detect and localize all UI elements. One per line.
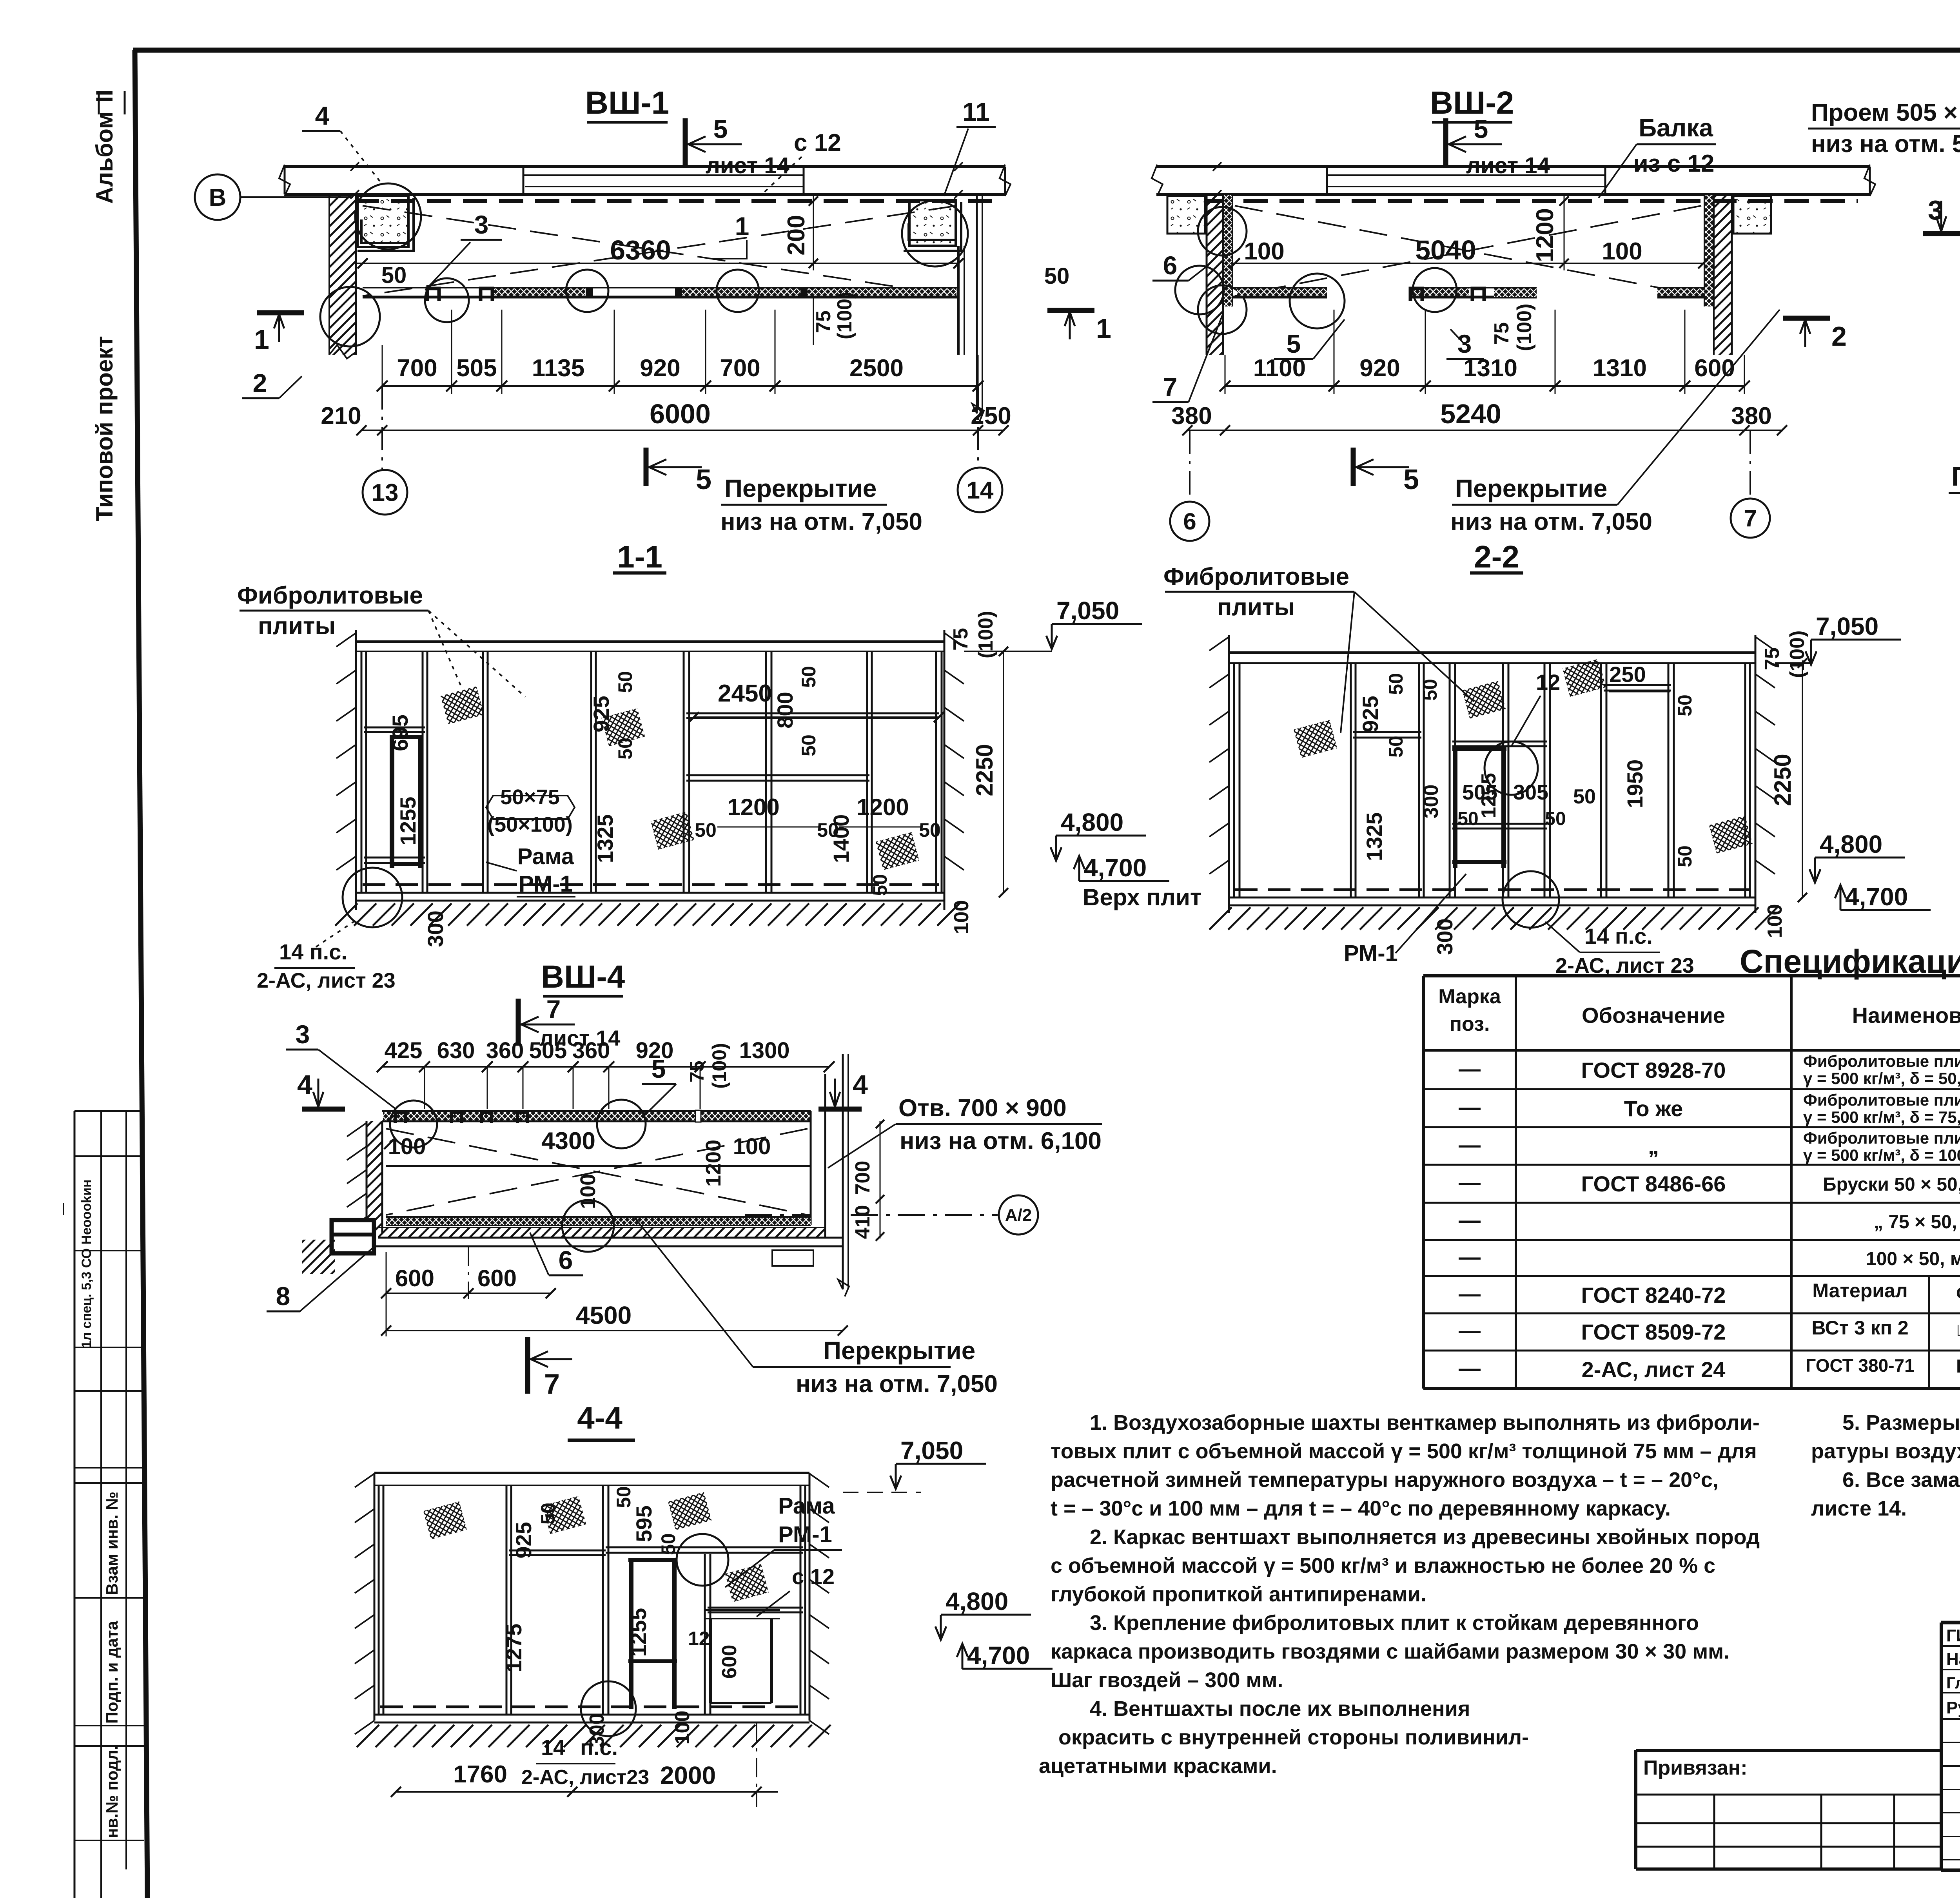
svg-text:1255: 1255	[1477, 773, 1500, 818]
2-2 dim 75 100 top right	[1761, 631, 1809, 678]
svg-text:13: 13	[372, 479, 399, 506]
svg-text:5: 5	[713, 114, 728, 143]
svg-text:360: 360	[486, 1038, 524, 1063]
svg-text:4,800: 4,800	[946, 1587, 1008, 1615]
svg-text:(100): (100)	[1786, 631, 1809, 678]
svg-text:50×75: 50×75	[500, 785, 560, 809]
4-4 bottom dims 1760 2000	[391, 1722, 778, 1807]
VSh-1 pos label 4	[302, 101, 382, 184]
svg-text:50: 50	[1674, 845, 1696, 867]
VSh-1 ceiling slab band	[279, 162, 1011, 199]
svg-text:ГОСТ 8509-72: ГОСТ 8509-72	[1581, 1320, 1726, 1344]
VSh-3 cut mark 3 left	[1923, 195, 1960, 234]
VSh-2 dimension row A	[1225, 310, 1744, 394]
VSh-2 pos labels 6 and 7	[1152, 251, 1207, 281]
svg-text:505: 505	[529, 1038, 567, 1063]
svg-text:7: 7	[544, 1369, 560, 1400]
svg-text:низ на отм. 5,100: низ на отм. 5,100	[1811, 131, 1960, 158]
VSh-4 top dim row	[377, 1038, 835, 1109]
svg-text:1: 1	[254, 324, 269, 355]
4-4 node circles	[581, 1681, 636, 1736]
svg-text:Отв. 700 × 900: Отв. 700 × 900	[898, 1095, 1067, 1122]
svg-text:50: 50	[798, 734, 820, 756]
svg-text:300: 300	[1420, 785, 1443, 819]
svg-text:Фибролитовые: Фибролитовые	[1163, 563, 1349, 590]
svg-text:Спецификация: Спецификация	[1740, 943, 1960, 980]
VSh-2 concrete block outside right	[1733, 196, 1771, 234]
svg-text:Проем 505 × 1255 (h),: Проем 505 × 1255 (h),	[1811, 99, 1960, 126]
svg-text:50: 50	[657, 1533, 679, 1555]
svg-text:ратуры воздуха t = – 40°: ратуры воздуха t = – 40°с.	[1811, 1440, 1960, 1463]
2-2 bottom chords	[1229, 890, 1755, 905]
2-2 studs	[1234, 663, 1750, 897]
svg-text:6. Все замаркированные уз: 6. Все замаркированные узлы на схемах ра…	[1842, 1468, 1960, 1492]
svg-text:200: 200	[783, 215, 810, 255]
VSh-4 dim row 600 600	[381, 1246, 556, 1299]
VSh-4 pos label 8	[267, 1248, 372, 1311]
svg-text:Типовой проект: Типовой проект	[91, 336, 118, 521]
svg-text:низ на отм. 6,100: низ на отм. 6,100	[900, 1128, 1102, 1155]
VSh-1 inner face line	[356, 263, 958, 264]
svg-text:В: В	[209, 184, 227, 211]
svg-text:Рама: Рама	[778, 1493, 835, 1519]
svg-text:250: 250	[1609, 662, 1646, 687]
VSh-4 bottom bands	[372, 1217, 843, 1246]
svg-text:ГОСТ 380-71: ГОСТ 380-71	[1806, 1355, 1914, 1376]
VSh-2 axis 7	[1731, 430, 1770, 538]
svg-text:300: 300	[1432, 918, 1457, 955]
svg-text:γ = 500 кг/м³, δ = 50,: γ = 500 кг/м³, δ = 50, м²	[1803, 1069, 1960, 1088]
svg-text:14: 14	[541, 1735, 565, 1760]
privyazan block	[1636, 1750, 1941, 1869]
section 1-1 title	[613, 539, 666, 574]
svg-text:Проем 1700 × 2620 (h),: Проем 1700 × 2620 (h),	[1951, 461, 1960, 491]
1-1 studs	[361, 651, 942, 893]
svg-text:ГОСТ 8928-70: ГОСТ 8928-70	[1581, 1058, 1726, 1082]
1-1 door frame RM-1	[390, 735, 423, 868]
2-2 top chord	[1229, 653, 1755, 663]
svg-text:γ = 500 кг/м³, δ = 75,: γ = 500 кг/м³, δ = 75, м²	[1803, 1108, 1960, 1126]
VSh-2 ceiling slab band	[1152, 162, 1875, 199]
VSh-4 section flag 7 bottom	[528, 1337, 572, 1400]
svg-text:ВШ-4: ВШ-4	[541, 959, 625, 995]
1-1 ground hatch	[335, 903, 358, 926]
VSh-1 section flag 5 top	[685, 114, 789, 178]
svg-text:окрасить с внутренней ст: окрасить с внутренней стороны поливинил-	[1058, 1726, 1529, 1749]
svg-text:товых плит с объемной: товых плит с объемной массой γ = 500 кг/…	[1051, 1440, 1757, 1463]
svg-text:425: 425	[385, 1038, 423, 1063]
svg-text:А/2: А/2	[1005, 1206, 1032, 1225]
svg-text:Марка: Марка	[1438, 985, 1501, 1008]
svg-text:630: 630	[437, 1038, 475, 1063]
spec table headers	[1438, 985, 1960, 1046]
VSh-4 node circle bottom	[562, 1200, 614, 1252]
notes column 2	[1811, 1411, 1960, 1520]
4-4 ground hatch	[357, 1725, 379, 1747]
VSh-4 vertical dims right 700 410	[851, 1120, 884, 1241]
2-2 right wall line	[1755, 635, 1775, 913]
VSh-2 dim 1200 vertical	[1532, 196, 1569, 270]
VSh-1 axis 13	[363, 386, 407, 515]
svg-text:2: 2	[253, 368, 267, 397]
svg-text:Взам инв. №: Взам инв. №	[103, 1492, 121, 1595]
svg-text:1. Воздухозаборные шахты: 1. Воздухозаборные шахты венткамер выпол…	[1090, 1411, 1760, 1434]
svg-text:14 п.с.: 14 п.с.	[279, 939, 347, 964]
svg-text:7,050: 7,050	[1056, 596, 1119, 625]
svg-text:50: 50	[1674, 694, 1696, 716]
4-4 small window detail	[705, 1610, 780, 1703]
VSh-2 left wall hatched	[1207, 195, 1232, 355]
svg-text:50: 50	[1457, 809, 1478, 829]
svg-text:1135: 1135	[532, 355, 585, 382]
title block signature table	[1941, 1610, 1960, 1870]
svg-text:50: 50	[381, 263, 407, 288]
1-1 dim texts lower	[396, 794, 941, 896]
svg-text:—: —	[1459, 1056, 1481, 1081]
VSh-4 pos label 5	[642, 1054, 676, 1117]
svg-text:1200: 1200	[857, 794, 909, 820]
svg-text:11: 11	[962, 97, 990, 126]
margin text Tipovoy proekt	[91, 336, 118, 521]
svg-text:7,050: 7,050	[1816, 612, 1878, 640]
svg-text:100: 100	[950, 900, 973, 934]
VSh-2 node circles	[1290, 274, 1345, 328]
svg-text:2500: 2500	[849, 355, 904, 382]
VSh-2 inner face line	[1232, 263, 1704, 264]
VSh-4 cut mark 4 left	[297, 1070, 345, 1109]
VSh-1 grid bubble V	[195, 174, 353, 220]
svg-text:ГИП: ГИП	[1946, 1626, 1960, 1645]
VSh-4 note perekrytie	[635, 1218, 998, 1398]
svg-text:1950: 1950	[1622, 760, 1647, 809]
svg-text:50: 50	[869, 874, 891, 896]
svg-text:с объемной массой γ = 50: с объемной массой γ = 500 кг/м³ и влажно…	[1051, 1554, 1715, 1577]
svg-text:Наименование: Наименование	[1852, 1003, 1960, 1028]
svg-text:Альбом: Альбом	[91, 111, 118, 204]
svg-text:1200: 1200	[1532, 208, 1559, 262]
VSh-3 note proem 505	[1808, 99, 1960, 274]
2-2 note 14ps	[1545, 922, 1694, 977]
spec table title	[1740, 943, 1960, 980]
svg-text:4. Вентшахты после их в: 4. Вентшахты после их выполнения	[1090, 1697, 1470, 1721]
4-4 rails	[509, 1547, 803, 1612]
svg-text:γ = 500 кг/м³, δ = 100, м: γ = 500 кг/м³, δ = 100, м²	[1803, 1146, 1960, 1164]
svg-text:ацетатными красками.: ацетатными красками.	[1039, 1754, 1277, 1778]
VSh-4 right side lines	[811, 1054, 849, 1296]
2-2 left wall line	[1209, 635, 1229, 913]
4-4 note 14ps	[521, 1735, 649, 1789]
plan VSh-2 title	[1430, 85, 1514, 122]
VSh-4 pos label 6	[530, 1233, 583, 1275]
svg-text:2-АС, лист 23: 2-АС, лист 23	[257, 969, 396, 992]
svg-text:(100): (100)	[975, 611, 997, 658]
VSh-1 pos label 2	[242, 368, 302, 398]
2-2 right elevation 7050	[1775, 612, 1901, 665]
svg-text:100: 100	[388, 1134, 426, 1159]
VSh-4 cut mark 4 right	[818, 1070, 868, 1109]
svg-text:50: 50	[1385, 673, 1407, 695]
svg-text:4-4: 4-4	[577, 1400, 622, 1435]
svg-text:6000: 6000	[650, 399, 711, 429]
svg-text:низ на отм. 7,050: низ на отм. 7,050	[720, 508, 922, 535]
VSh-2 dimension row B 5240	[1171, 399, 1787, 435]
1-1 dim 2250 right	[971, 647, 1008, 897]
svg-text:920: 920	[1359, 355, 1400, 382]
VSh-2 opening diagonals	[1235, 206, 1701, 296]
2-2 rails	[1353, 685, 1671, 829]
svg-text:—: —	[1459, 1207, 1481, 1232]
svg-text:1255: 1255	[396, 797, 420, 846]
svg-text:(100): (100)	[1513, 304, 1536, 351]
1-1 dim texts upper	[388, 666, 944, 760]
VSh-2 dim 5040	[1230, 235, 1708, 268]
svg-text:расчетной зимней температу: расчетной зимней температуры наружного в…	[1051, 1468, 1719, 1492]
VSh-1 pos label 3	[425, 210, 502, 290]
svg-text:505: 505	[456, 355, 497, 382]
svg-text:7: 7	[1163, 372, 1178, 401]
svg-text:5. Размеры в скобках да: 5. Размеры в скобках даны для расчетной …	[1842, 1411, 1960, 1434]
VSh-1 hidden dashed contour	[355, 199, 1004, 203]
4-4 top chord	[374, 1473, 809, 1485]
svg-text:2-2: 2-2	[1474, 539, 1519, 574]
VSh-1 dim 200 vertical	[783, 196, 818, 270]
svg-text:Нач отд: Нач отд	[1946, 1650, 1960, 1669]
svg-text:50: 50	[537, 1503, 559, 1525]
svg-text:1325: 1325	[593, 814, 617, 863]
2-2 dim 2250 right	[1769, 658, 1807, 902]
svg-text:6: 6	[1163, 251, 1178, 280]
VSh-1 corner block right	[904, 200, 961, 251]
VSh-1 detail circle wall base	[320, 287, 380, 346]
2-2 node circles	[1485, 742, 1538, 795]
1-1 right elevation 4700	[1074, 854, 1201, 910]
svg-text:1310: 1310	[1463, 355, 1517, 382]
VSh-2 section cut mark 2 right	[1783, 318, 1847, 352]
svg-text:305: 305	[1513, 781, 1548, 804]
svg-text:100: 100	[671, 1711, 694, 1745]
4-4 bottom chords	[374, 1707, 809, 1722]
VSh-2 section flag 5 bottom	[1353, 448, 1419, 495]
svg-text:(50×100): (50×100)	[487, 813, 573, 836]
VSh-1 right wall lines	[958, 246, 964, 355]
1-1 left wall line	[336, 630, 356, 910]
1-1 right elevation 7050	[964, 596, 1142, 651]
svg-text:100: 100	[576, 1174, 600, 1209]
svg-text:ВШ-1: ВШ-1	[585, 85, 670, 121]
VSh-2 concrete block outside left	[1167, 196, 1205, 234]
VSh-2 section flag 5 top	[1446, 114, 1550, 178]
svg-text:1255: 1255	[626, 1608, 651, 1657]
svg-text:75: 75	[812, 310, 835, 333]
1-1 rails	[364, 713, 939, 863]
svg-text:с 12: с 12	[794, 129, 841, 156]
svg-text:7: 7	[546, 995, 561, 1024]
svg-text:100 × 50, м³: 100 × 50, м³	[1866, 1249, 1960, 1269]
VSh-1 corner block left	[358, 196, 414, 251]
svg-text:—: —	[1459, 1281, 1481, 1306]
svg-text:„: „	[1648, 1134, 1659, 1158]
VSh-1 node circles on strip	[425, 278, 469, 322]
svg-text:1100: 1100	[1253, 355, 1306, 382]
svg-text:250: 250	[971, 402, 1011, 430]
VSh-4 small box below	[772, 1250, 813, 1266]
4-4 right wall	[809, 1473, 829, 1734]
svg-text:1300: 1300	[739, 1038, 789, 1063]
svg-text:То же: То же	[1624, 1096, 1683, 1121]
VSh-1 pos label 11	[944, 97, 996, 196]
svg-text:1: 1	[1096, 313, 1111, 344]
1-1 right elevation 4800	[1051, 808, 1146, 861]
svg-text:14 п.с.: 14 п.с.	[1584, 924, 1653, 948]
svg-text:2-АС, лист 23: 2-АС, лист 23	[1555, 954, 1694, 977]
svg-text:50: 50	[919, 819, 941, 841]
svg-text:210: 210	[321, 402, 361, 430]
svg-text:—: —	[1459, 1318, 1481, 1343]
svg-text:низ на отм. 7,050: низ на отм. 7,050	[1450, 508, 1652, 535]
svg-text:—: —	[56, 1203, 69, 1215]
svg-text:2250: 2250	[971, 744, 998, 796]
VSh-1 pos label 1 leader	[711, 212, 749, 259]
VSh-1 detail circle corner	[355, 183, 421, 249]
svg-text:4: 4	[315, 101, 330, 130]
VSh-4 note otv 700x900	[828, 1095, 1102, 1168]
svg-text:2: 2	[1831, 321, 1847, 352]
1-1 label Rama RM-1	[486, 844, 575, 897]
svg-text:нв.№ подл.: нв.№ подл.	[103, 1745, 121, 1838]
VSh-1 left wall hatched	[329, 194, 356, 359]
svg-text:Шаг гвоздей – 300 мм.: Шаг гвоздей – 300 мм.	[1051, 1668, 1283, 1692]
svg-text:поз.: поз.	[1450, 1013, 1490, 1035]
svg-text:4,800: 4,800	[1061, 808, 1123, 836]
VSh-3 note proem 1700	[1949, 379, 1960, 521]
svg-text:ГОСТ 8486-66: ГОСТ 8486-66	[1581, 1171, 1726, 1196]
VSh-4 dim row 4500	[381, 1252, 848, 1336]
plan VSh-4 title	[541, 959, 625, 996]
svg-text:50: 50	[614, 738, 636, 760]
VSh-1 section cut mark 1 left	[254, 313, 304, 355]
svg-text:75: 75	[1490, 322, 1513, 345]
margin text Album II	[91, 90, 125, 204]
svg-text:4,700: 4,700	[967, 1641, 1030, 1670]
svg-text:1: 1	[735, 212, 750, 241]
svg-text:Гл констр.: Гл констр.	[1946, 1673, 1960, 1692]
svg-text:глубокой пропиткой антипир: глубокой пропиткой антипиренами.	[1051, 1583, 1426, 1606]
svg-text:РМ-1 ,: РМ-1 ,	[1956, 1356, 1960, 1377]
svg-text:700: 700	[851, 1161, 874, 1195]
svg-text:РМ-1: РМ-1	[778, 1522, 832, 1547]
svg-text:плиты: плиты	[258, 613, 336, 640]
svg-text:8: 8	[276, 1282, 290, 1311]
1-1 node circle bottom-left	[314, 868, 402, 948]
VSh-1 outer wall edge right	[972, 196, 984, 421]
2-2 right elevation 4800	[1809, 830, 1905, 883]
svg-text:2. Каркас вентшахт выполн: 2. Каркас вентшахт выполняется из древес…	[1090, 1525, 1760, 1549]
svg-text:—: —	[1459, 1356, 1481, 1380]
svg-text:4500: 4500	[576, 1301, 632, 1329]
4-4 elevation 4800	[935, 1587, 1031, 1640]
4-4 left wall	[355, 1473, 374, 1734]
svg-text:100: 100	[1602, 238, 1642, 265]
svg-text:Бруски 50 × 50, м³: Бруски 50 × 50, м³	[1823, 1174, 1960, 1195]
svg-text:50: 50	[695, 819, 717, 841]
svg-text:2-АС, лист23: 2-АС, лист23	[521, 1766, 649, 1789]
svg-text:595: 595	[632, 1505, 656, 1542]
VSh-4 left wall	[347, 1121, 382, 1233]
svg-text:Балка: Балка	[1639, 114, 1713, 142]
svg-text:75: 75	[949, 628, 972, 651]
section 4-4 title	[568, 1400, 635, 1440]
svg-text:75: 75	[686, 1061, 708, 1082]
VSh-4 left support corner	[302, 1220, 374, 1274]
4-4 elevation 4700	[957, 1641, 1053, 1670]
svg-text:Верх плит: Верх плит	[1083, 884, 1201, 910]
svg-text:3: 3	[296, 1020, 310, 1049]
VSh-2 axis 6	[1170, 430, 1209, 541]
svg-text:—: —	[1459, 1170, 1481, 1195]
svg-text:4,700: 4,700	[1084, 854, 1147, 882]
svg-text:7: 7	[1744, 505, 1757, 531]
notes column 1	[1039, 1411, 1760, 1778]
svg-text:—: —	[1459, 1095, 1481, 1119]
svg-text:1760: 1760	[453, 1761, 507, 1788]
svg-text:360: 360	[572, 1038, 610, 1063]
VSh-2 pos labels 5 and 3	[1274, 319, 1345, 359]
svg-text:плиты: плиты	[1217, 594, 1295, 621]
VSh-1 section cut mark 1 right	[1047, 310, 1111, 344]
svg-text:925: 925	[1358, 696, 1383, 732]
svg-text:6: 6	[1183, 508, 1196, 535]
svg-text:5240: 5240	[1440, 399, 1501, 429]
margin stamp table	[56, 1111, 144, 1898]
4-4 label Rama RM-1	[725, 1493, 842, 1587]
2-2 label RM-1 bottom	[1344, 874, 1466, 966]
VSh-2 hidden dashed contour	[1207, 199, 1858, 203]
VSh-4 top plate band	[382, 1110, 811, 1123]
4-4 studs	[378, 1485, 380, 1715]
svg-text:листе 14.: листе 14.	[1811, 1497, 1907, 1520]
VSh-4 axis A2	[745, 1195, 1038, 1235]
section 2-2 title	[1470, 539, 1523, 574]
svg-text:1-1: 1-1	[617, 539, 662, 574]
1-1 label fibrolitovye plity	[237, 582, 525, 697]
svg-text:ВШ-2: ВШ-2	[1430, 85, 1514, 121]
2-2 door frame	[1452, 747, 1506, 868]
svg-text:1310: 1310	[1593, 355, 1647, 382]
svg-text:925: 925	[511, 1522, 536, 1558]
svg-text:700: 700	[397, 355, 437, 382]
2-2 label fibrolitovye plity	[1163, 563, 1474, 733]
svg-text:4: 4	[297, 1070, 312, 1100]
svg-text:700: 700	[720, 355, 760, 382]
svg-text:„ 75 × 50, м³: „ 75 × 50, м³	[1874, 1212, 1960, 1233]
svg-text:1325: 1325	[1362, 812, 1387, 861]
svg-text:50: 50	[798, 666, 820, 688]
4-4 fibro patches	[423, 1501, 467, 1539]
svg-text:—: —	[1459, 1244, 1481, 1269]
svg-text:1400: 1400	[829, 814, 853, 863]
svg-text:1200: 1200	[727, 794, 779, 820]
svg-text:3. Крепление фибролитовых: 3. Крепление фибролитовых плит к стойкам…	[1090, 1611, 1699, 1635]
svg-text:II: II	[91, 90, 118, 103]
svg-text:2000: 2000	[660, 1761, 716, 1789]
spec table rows data	[1459, 1052, 1960, 1382]
svg-text:Рук гр.: Рук гр.	[1946, 1698, 1960, 1717]
svg-text:4: 4	[853, 1070, 868, 1100]
svg-text:Перекрытие: Перекрытие	[823, 1336, 975, 1365]
svg-text:380: 380	[1171, 402, 1212, 430]
VSh-2 right wall hatched	[1704, 195, 1732, 355]
VSh-4 section flag 7 top	[518, 995, 620, 1050]
